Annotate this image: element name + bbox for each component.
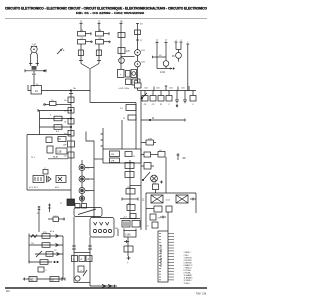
svg-text:10 MARR.: 10 MARR. [184, 274, 193, 277]
svg-text:RIF. 01 - CS 22599 - C/02 00/0: RIF. 01 - CS 22599 - C/02 00/04/2099 [76, 11, 144, 15]
svg-text:7 GIALLO: 7 GIALLO [184, 267, 193, 270]
svg-text:6 BIANCO: 6 BIANCO [184, 264, 193, 267]
svg-text:TAV. 3 B: TAV. 3 B [196, 292, 206, 296]
svg-text:BLA1: BLA1 [53, 156, 59, 159]
svg-text:C15A: C15A [125, 234, 131, 237]
svg-text:d7.1 d7.2: d7.1 d7.2 [29, 187, 39, 189]
svg-text:L5A: L5A [57, 137, 61, 140]
svg-text:C3B: C3B [57, 152, 62, 154]
svg-text:17B: 17B [148, 138, 152, 140]
svg-text:M: M [152, 118, 154, 120]
svg-text:zz: zz [60, 203, 62, 205]
svg-text:A 04: A 04 [160, 71, 166, 74]
svg-text:RE: RE [30, 279, 34, 281]
svg-text:17B: 17B [111, 161, 115, 163]
svg-text:13 BLU: 13 BLU [184, 283, 191, 285]
svg-text:W: W [160, 104, 162, 106]
svg-text:+C05 C05b: +C05 C05b [118, 88, 130, 90]
svg-text:14: 14 [36, 84, 38, 86]
svg-text:17F: 17F [126, 51, 131, 53]
